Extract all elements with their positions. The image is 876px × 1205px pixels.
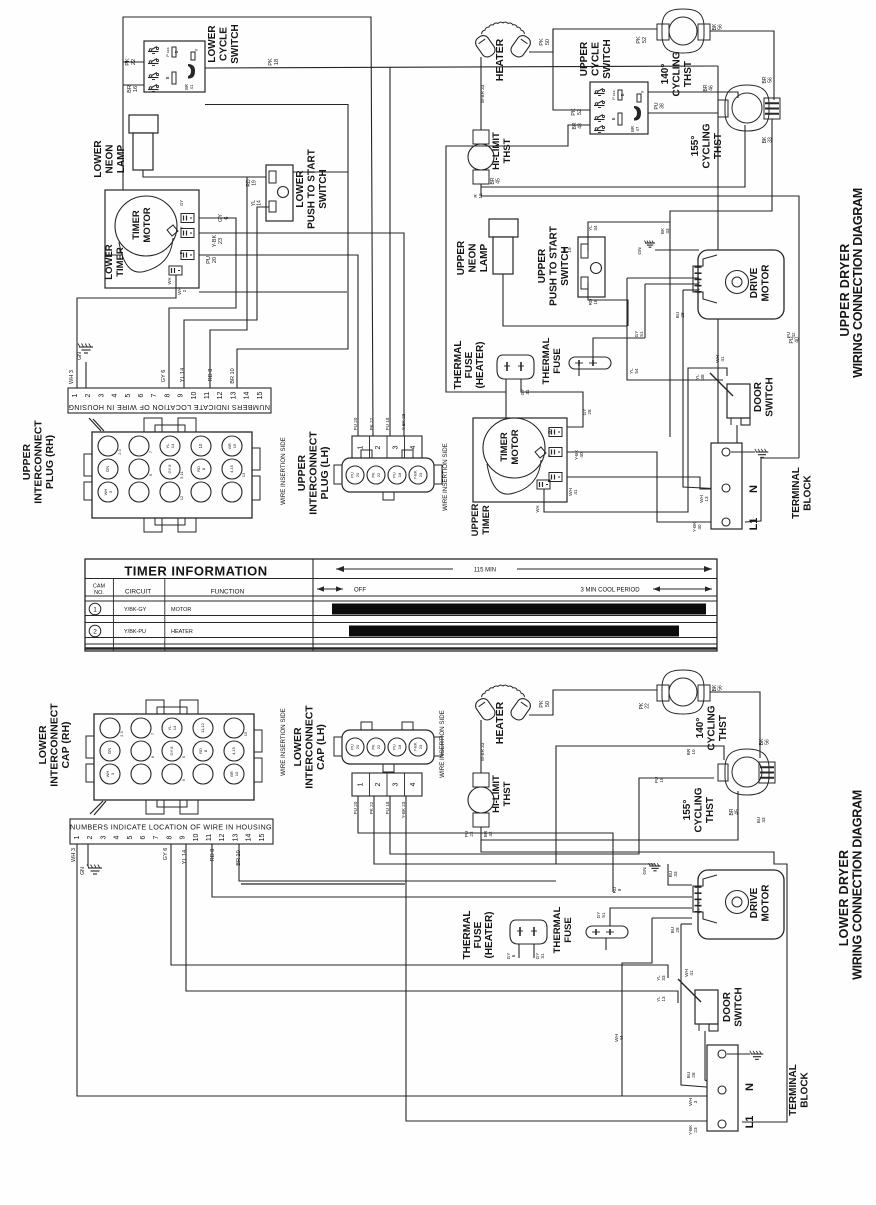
svg-text:L1: L1 [748, 518, 760, 531]
svg-text:CIRCUIT: CIRCUIT [125, 589, 151, 596]
hi-limit thermostat upper [473, 130, 489, 144]
svg-text:11: 11 [206, 834, 213, 841]
svg-text:GY: GY [547, 428, 552, 434]
svg-text:FUSE: FUSE [473, 921, 484, 948]
lower neon lamp DS1 [129, 115, 158, 133]
wire junction up to 155 left tab [556, 746, 724, 864]
svg-text:38: 38 [660, 103, 666, 109]
wire GY 6 housing 8 to door switch lever [171, 844, 668, 978]
svg-text:LOWER: LOWER [292, 727, 304, 766]
svg-text:54: 54 [634, 368, 639, 374]
svg-text:INTERCONNECT: INTERCONNECT [49, 703, 61, 787]
upper timer T2 [473, 418, 567, 502]
svg-text:LOWER: LOWER [104, 244, 115, 279]
svg-text:10: 10 [234, 771, 239, 776]
svg-text:PU 18: PU 18 [385, 417, 390, 430]
door switch S5 lower [695, 990, 718, 1024]
door switch S4 upper [727, 384, 750, 418]
svg-text:N: N [744, 1083, 756, 1091]
svg-text:48: 48 [578, 123, 584, 129]
svg-text:10: 10 [691, 749, 696, 755]
svg-text:13: 13 [661, 996, 666, 1002]
svg-text:TIMER: TIMER [115, 247, 126, 277]
wire GN housing 2 to ground lower [87, 844, 89, 866]
svg-text:4,15: 4,15 [231, 746, 236, 755]
svg-text:SWITCH: SWITCH [318, 169, 329, 208]
svg-text:FUSE: FUSE [552, 348, 563, 374]
wire PU 38 cycle switch to 155 left [648, 112, 718, 114]
svg-text:TIMER: TIMER [131, 210, 142, 240]
svg-text:8: 8 [164, 393, 171, 397]
svg-text:9: 9 [617, 888, 622, 891]
wire to L1 from left [403, 435, 405, 437]
svg-text:11,12: 11,12 [200, 722, 205, 732]
svg-text:HEATER: HEATER [171, 629, 193, 635]
svg-text:41: 41 [720, 356, 725, 362]
svg-text:WH: WH [167, 278, 172, 285]
svg-text:PLUG (LH): PLUG (LH) [319, 446, 331, 499]
wire W-BR 33 heater to hi-limit [480, 57, 482, 130]
svg-text:THERMAL: THERMAL [453, 341, 464, 390]
svg-text:51: 51 [601, 912, 606, 918]
svg-text:2 3: 2 3 [117, 448, 122, 454]
drive motor M1 upper [698, 250, 784, 319]
svg-text:WIRE INSERTION SIDE: WIRE INSERTION SIDE [280, 708, 287, 776]
svg-text:56: 56 [768, 77, 774, 83]
svg-text:CYCLE: CYCLE [591, 42, 602, 76]
svg-text:SWITCH: SWITCH [734, 987, 745, 1026]
svg-text:15: 15 [232, 443, 237, 448]
svg-text:B: B [174, 50, 179, 53]
svg-text:18: 18 [659, 777, 664, 783]
thermal fuse (heater) upper [497, 355, 534, 379]
svg-text:7: 7 [151, 393, 158, 397]
svg-text:THST: THST [683, 61, 694, 87]
svg-text:PU: PU [392, 744, 397, 750]
svg-text:LOWER DRYER: LOWER DRYER [837, 850, 851, 947]
wire RD 8 from push switch node to housing 11 [210, 177, 247, 388]
wire WH 41 upper timer to door switch [544, 368, 727, 512]
svg-text:Y: Y [640, 90, 645, 93]
svg-text:NO.: NO. [94, 590, 104, 596]
svg-text:14: 14 [246, 834, 253, 842]
svg-text:155°: 155° [682, 800, 693, 821]
svg-text:TIMER: TIMER [481, 505, 492, 535]
wire Y-BK 40 upper timer to terminal L1 [567, 452, 719, 522]
svg-text:GN: GN [107, 748, 112, 754]
svg-text:5: 5 [127, 835, 134, 839]
svg-text:WIRE INSERTION SIDE: WIRE INSERTION SIDE [280, 437, 287, 505]
svg-text:B: B [165, 76, 170, 79]
wire W-BR 33 heater to hi-limit lower [480, 720, 482, 773]
svg-text:5: 5 [125, 393, 132, 397]
svg-text:CAM: CAM [93, 584, 106, 590]
wire motor pin1 BU 28 to terminal N [683, 289, 699, 291]
wire motor pin2 YL 54 to door switch [627, 277, 699, 279]
svg-text:B: B [611, 117, 616, 120]
svg-text:23: 23 [418, 472, 423, 477]
svg-text:2: 2 [87, 835, 94, 839]
svg-text:THERMAL: THERMAL [552, 906, 563, 953]
svg-text:4,15: 4,15 [229, 464, 234, 473]
svg-text:56: 56 [718, 685, 724, 691]
svg-text:UPPER: UPPER [456, 240, 467, 275]
wire BR 48 from cycle switch down-left [446, 125, 590, 392]
wire RD 8 housing 11 to drive motor [212, 844, 692, 897]
svg-text:41: 41 [689, 970, 694, 976]
svg-text:BR: BR [127, 85, 133, 93]
cam 1 motor bar [332, 604, 706, 615]
cam 2 row [89, 625, 101, 637]
svg-text:19: 19 [567, 247, 572, 253]
wire BK 33 from 155 right down to push switch rail [670, 119, 772, 222]
wire BU 28 motor pin to N lower [681, 923, 692, 925]
wires thermal fuse heater to upper timer [505, 379, 507, 392]
svg-text:115 MIN: 115 MIN [474, 568, 496, 574]
svg-text:L1: L1 [744, 1116, 756, 1129]
hi-limit thermostat lower [473, 773, 489, 787]
svg-text:BR 10: BR 10 [236, 850, 242, 866]
wire door switch to N lower [705, 1031, 719, 1087]
svg-text:15: 15 [243, 731, 248, 736]
svg-text:PK: PK [571, 108, 577, 116]
svg-text:GY: GY [179, 200, 184, 206]
svg-text:BLOCK: BLOCK [800, 1071, 811, 1107]
svg-text:Y-BK: Y-BK [212, 234, 218, 247]
svg-text:3: 3 [393, 782, 400, 786]
svg-text:PK: PK [539, 38, 545, 46]
timer information table frame [85, 559, 717, 651]
svg-text:16: 16 [593, 299, 598, 305]
svg-text:23: 23 [418, 744, 423, 749]
svg-text:CAP (RH): CAP (RH) [60, 721, 72, 768]
svg-text:42: 42 [791, 332, 796, 338]
svg-text:2: 2 [93, 629, 97, 636]
svg-text:2: 2 [375, 782, 382, 786]
svg-text:WIRE INSERTION SIDE: WIRE INSERTION SIDE [439, 710, 446, 778]
svg-text:15: 15 [257, 392, 264, 400]
115 min arrow [336, 568, 453, 570]
plug LH pin strip 1-4 [352, 436, 422, 459]
svg-text:42: 42 [488, 831, 493, 837]
upper interconnect plug LH [342, 458, 434, 492]
wire PK 50 heater to 140 thermostat lower [529, 690, 657, 715]
svg-text:28: 28 [691, 1072, 696, 1078]
svg-text:PK: PK [371, 472, 376, 478]
svg-text:6: 6 [138, 393, 145, 397]
wire BU 33 from 155 down to motor GN [668, 864, 692, 885]
svg-text:34: 34 [593, 225, 598, 231]
svg-text:22: 22 [645, 703, 651, 709]
svg-text:18: 18 [397, 744, 402, 749]
wire BK 56 to 155 right lower [710, 692, 760, 758]
svg-text:3: 3 [98, 393, 105, 397]
svg-text:2 3: 2 3 [119, 730, 124, 736]
svg-text:2: 2 [85, 393, 92, 397]
upper push to start switch S3 [578, 237, 605, 297]
lower cycle switch S1 box [144, 41, 205, 92]
svg-text:28: 28 [587, 409, 592, 415]
svg-text:CAP (LH): CAP (LH) [315, 724, 327, 770]
svg-text:2: 2 [375, 445, 382, 449]
svg-text:13: 13 [230, 392, 237, 400]
svg-text:46: 46 [709, 85, 715, 91]
svg-text:56: 56 [718, 24, 724, 30]
svg-text:CYCLING: CYCLING [672, 51, 683, 96]
wire PK 52 junction to cycle switch [553, 29, 590, 110]
svg-text:56: 56 [765, 739, 771, 745]
svg-text:Y/BK-GY: Y/BK-GY [124, 607, 147, 613]
svg-text:20: 20 [355, 472, 360, 477]
svg-text:N: N [748, 485, 760, 493]
svg-text:WH: WH [535, 506, 540, 513]
svg-text:9: 9 [178, 393, 185, 397]
wire BR 10 housing 13 [239, 844, 556, 881]
svg-text:MOTOR: MOTOR [761, 264, 772, 302]
svg-text:PU: PU [350, 744, 355, 750]
svg-text:THERMAL: THERMAL [541, 337, 552, 384]
svg-text:UPPER: UPPER [21, 444, 33, 481]
ground GN at housing 2 [85, 362, 87, 388]
svg-text:3: 3 [693, 1100, 698, 1103]
wire YL 14 from push switch to housing 9 [184, 207, 269, 388]
svg-text:YL 14: YL 14 [182, 850, 188, 864]
svg-text:TIMER: TIMER [499, 432, 510, 462]
svg-text:33: 33 [761, 817, 766, 823]
lower interconnect cap LH [342, 730, 434, 764]
terminal block upper [711, 443, 742, 529]
svg-text:10: 10 [198, 443, 203, 448]
svg-text:45: 45 [496, 178, 502, 184]
svg-text:14: 14 [170, 443, 175, 448]
wire from upper neon lamp [503, 274, 627, 326]
thermal fuse lower [586, 926, 628, 938]
cam 1 row [89, 603, 101, 615]
svg-text:50: 50 [545, 701, 551, 707]
svg-text:LOWER: LOWER [207, 25, 218, 63]
wire hi-limit bottom to 155 bottom lower [481, 791, 738, 840]
svg-text:MOTOR: MOTOR [510, 429, 521, 464]
svg-text:OFF: OFF [354, 588, 366, 594]
svg-text:LOWER: LOWER [37, 725, 49, 764]
svg-text:1: 1 [93, 607, 97, 614]
svg-text:41: 41 [189, 84, 194, 89]
svg-text:UPPER: UPPER [537, 248, 548, 283]
wire PK 50 heater to 140 thermostat [529, 29, 657, 52]
svg-text:GY: GY [218, 214, 224, 222]
155 deg cycling thermostat lower [725, 749, 769, 795]
svg-text:PUSH TO START: PUSH TO START [549, 226, 560, 306]
svg-text:6: 6 [224, 216, 230, 219]
wire cap LH pin1 PU 20 down [358, 796, 613, 892]
svg-text:Y-BK 23: Y-BK 23 [401, 413, 406, 430]
svg-text:50: 50 [545, 39, 551, 45]
svg-text:16: 16 [133, 86, 139, 92]
wire WH 2 from lower timer to housing 1 [77, 275, 176, 388]
svg-text:HEATER: HEATER [494, 701, 506, 744]
wire Y-BK 23 from lower timer to plug pin 4 [199, 233, 404, 436]
svg-text:14: 14 [172, 725, 177, 730]
wire PU 20 from lower timer to plug pin 1 [199, 255, 358, 436]
left rail wire [122, 62, 124, 255]
wire BR 46 cycle switch to 155 top [648, 92, 738, 98]
wire x718 long vertical to terminal block [718, 66, 722, 452]
wire PU 40 rail to L1 [745, 458, 799, 522]
wire GY 51 thermal fuse to motor lower [610, 908, 692, 927]
svg-text:52: 52 [577, 109, 583, 115]
svg-text:4: 4 [410, 445, 417, 449]
svg-text:NUMBERS INDICATE LOCATION OF W: NUMBERS INDICATE LOCATION OF WIRE IN HOU… [68, 403, 270, 412]
svg-text:2: 2 [182, 289, 187, 292]
155 deg cycling thermostat upper [725, 85, 769, 131]
svg-text:YL 14: YL 14 [180, 368, 186, 382]
svg-text:20: 20 [212, 257, 218, 263]
svg-text:3: 3 [393, 445, 400, 449]
svg-text:FUNCTION: FUNCTION [211, 589, 245, 596]
svg-text:41: 41 [573, 489, 578, 495]
svg-text:4: 4 [114, 835, 121, 839]
svg-text:22: 22 [376, 472, 381, 477]
svg-text:GN: GN [105, 466, 110, 472]
svg-text:22: 22 [131, 59, 137, 65]
svg-text:THST: THST [713, 133, 724, 159]
svg-text:TERMINAL: TERMINAL [788, 1064, 799, 1116]
svg-text:13: 13 [241, 472, 246, 477]
svg-text:WIRING CONNECTION DIAGRAM: WIRING CONNECTION DIAGRAM [851, 188, 865, 378]
svg-text:12: 12 [478, 193, 483, 199]
svg-text:12: 12 [219, 834, 226, 842]
svg-text:LOWER: LOWER [295, 170, 306, 208]
wire BK 56 / BR 56 to 155 right [710, 31, 774, 100]
svg-text:22: 22 [376, 744, 381, 749]
wire hi-limit lower rail to L1 [481, 840, 787, 1122]
svg-text:20: 20 [355, 744, 360, 749]
svg-text:SWITCH: SWITCH [230, 24, 241, 63]
svg-text:B: B [620, 93, 625, 96]
wire motor pin3 GY 51 to thermal fuse [645, 283, 699, 285]
svg-text:1 2 3 4 5: 1 2 3 4 5 [696, 897, 701, 913]
svg-text:14: 14 [257, 200, 263, 206]
svg-text:140°: 140° [660, 64, 671, 85]
svg-text:DRIVE: DRIVE [749, 887, 760, 918]
svg-text:TERMINAL: TERMINAL [791, 467, 802, 519]
svg-text:THST: THST [502, 138, 513, 163]
wire cap LH pin2 PK 22 down [374, 796, 655, 864]
svg-text:8: 8 [166, 835, 173, 839]
svg-text:33: 33 [665, 228, 670, 234]
svg-text:11: 11 [204, 392, 211, 399]
svg-text:PU 18: PU 18 [385, 801, 390, 814]
svg-text:DOOR: DOOR [753, 381, 764, 412]
housing strip lower [70, 819, 273, 844]
svg-text:CYCLING: CYCLING [694, 787, 705, 832]
svg-text:CYCLING: CYCLING [702, 123, 713, 168]
wire PK 22 from cycle switch via top loop to plug pin 2 [123, 17, 373, 436]
svg-text:CYCLE: CYCLE [219, 27, 230, 61]
svg-text:LOWER: LOWER [93, 140, 104, 178]
svg-text:PK 22: PK 22 [369, 417, 374, 430]
svg-text:38: 38 [700, 374, 705, 380]
wire GY 51 thermal fuse to motor rail [593, 338, 645, 361]
svg-text:MOTOR: MOTOR [142, 207, 153, 242]
svg-text:UPPER: UPPER [579, 41, 590, 76]
terminal block lower [707, 1045, 738, 1131]
svg-text:UPPER DRYER: UPPER DRYER [838, 243, 852, 336]
svg-text:15: 15 [259, 834, 266, 842]
svg-text:140°: 140° [695, 718, 706, 739]
upper cycle switch contacts [595, 91, 598, 94]
svg-text:THST: THST [502, 781, 513, 806]
svg-text:INTERCONNECT: INTERCONNECT [33, 420, 45, 504]
svg-text:GN: GN [80, 867, 86, 875]
upper neon lamp DS2 [489, 219, 518, 237]
svg-text:33: 33 [768, 137, 774, 143]
wire BR 10 from push switch right to housing 13 [293, 171, 348, 173]
svg-text:31: 31 [540, 953, 545, 959]
heater R2 lower [473, 696, 497, 722]
svg-text:HEATER: HEATER [494, 38, 506, 81]
ground at terminal block upper [756, 451, 769, 453]
svg-text:51: 51 [639, 331, 644, 337]
svg-text:PUSH TO START: PUSH TO START [307, 149, 318, 229]
upper cycle switch box [590, 82, 648, 134]
svg-text:33: 33 [673, 871, 678, 877]
svg-text:Y: Y [194, 48, 199, 51]
heater R1 upper [473, 33, 497, 59]
svg-text:PK: PK [539, 700, 545, 708]
housing strip upper - numbers indicate location of wire in housing [68, 388, 271, 413]
svg-text:P xxx: P xxx [166, 47, 170, 56]
svg-text:12: 12 [179, 495, 184, 500]
cam 2 heater bar [349, 626, 679, 637]
svg-text:P: P [547, 479, 552, 482]
svg-text:44: 44 [619, 1035, 624, 1041]
svg-text:W-BR 33: W-BR 33 [480, 84, 485, 103]
svg-text:Y-BK: Y-BK [413, 742, 418, 751]
svg-text:RD 8: RD 8 [208, 369, 214, 382]
wire RD 12 hi-limit to right rail [481, 187, 799, 458]
svg-text:155°: 155° [690, 136, 701, 157]
svg-text:1: 1 [72, 393, 79, 397]
svg-text:P: P [179, 251, 184, 254]
svg-text:PU: PU [350, 472, 355, 478]
svg-text:TIMER INFORMATION: TIMER INFORMATION [124, 564, 267, 579]
svg-text:FUSE: FUSE [563, 917, 574, 943]
svg-text:Y-BK 23: Y-BK 23 [401, 801, 406, 818]
svg-text:40: 40 [697, 524, 702, 530]
svg-text:PK: PK [125, 58, 131, 66]
svg-text:10: 10 [191, 392, 198, 400]
svg-text:(HEATER): (HEATER) [484, 911, 495, 958]
lower cycle switch contacts [149, 49, 152, 52]
svg-text:DOOR: DOOR [722, 991, 733, 1022]
svg-text:INTERCONNECT: INTERCONNECT [304, 705, 316, 789]
svg-text:PU 20: PU 20 [353, 801, 358, 814]
svg-text:6: 6 [511, 954, 516, 957]
svg-text:THST: THST [718, 715, 729, 741]
wire YL 34 push switch top to BK33 rail [588, 222, 670, 251]
svg-text:GY 8: GY 8 [169, 746, 174, 756]
svg-text:13: 13 [704, 496, 709, 502]
svg-text:Y: Y [179, 226, 184, 229]
wire PU18 vertical to plug pin 3 [389, 67, 391, 436]
wire WH 13 upper timer to terminal N [567, 477, 719, 489]
svg-text:THST: THST [705, 797, 716, 823]
svg-text:FUSE: FUSE [464, 351, 475, 378]
svg-text:22: 22 [469, 831, 474, 837]
svg-text:HI-LIMIT: HI-LIMIT [491, 132, 502, 170]
svg-text:40: 40 [579, 452, 584, 458]
